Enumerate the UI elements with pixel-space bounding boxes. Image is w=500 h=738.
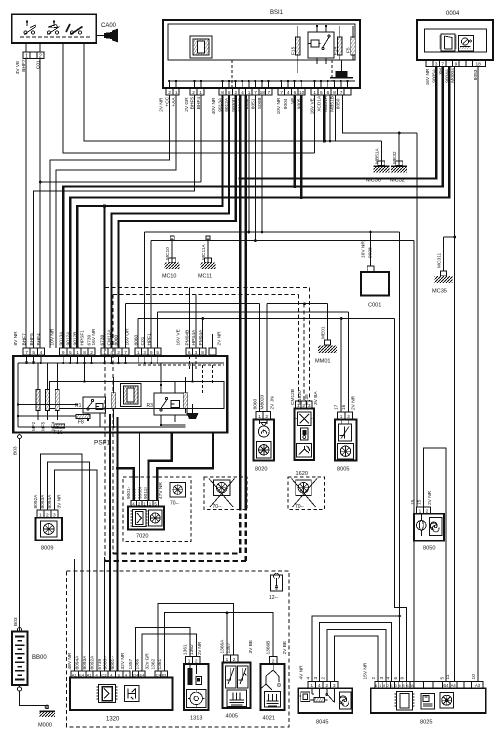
svg-text:8094A: 8094A — [47, 494, 53, 509]
wire BHF7 CA00 to PSF1 — [25, 43, 27, 348]
fuse MF2 — [36, 390, 40, 411]
BSI1 terminal wire labels — [0, 0, 1, 1]
svg-text:8: 8 — [83, 350, 86, 356]
svg-text:F15: F15 — [290, 46, 296, 55]
svg-text:MC35: MC35 — [432, 289, 447, 295]
svg-text:2: 2 — [192, 90, 195, 96]
svg-text:2V NR: 2V NR — [159, 97, 165, 112]
svg-text:MC11: MC11 — [198, 274, 212, 280]
7020 feed B from PSF1 — [149, 433, 172, 501]
svg-text:70--: 70-- — [170, 501, 179, 507]
svg-text:8053: 8053 — [473, 69, 479, 80]
PSF1 top internal bus — [18, 362, 224, 364]
wire 9012A BSI1 to PSF1 — [112, 95, 230, 348]
PSF1 terminal row group4 — [135, 348, 161, 356]
switch S2 inside CA00 — [48, 25, 60, 35]
svg-text:48V NR: 48V NR — [67, 652, 73, 669]
svg-text:1620: 1620 — [296, 471, 308, 477]
svg-text:16: 16 — [341, 404, 347, 410]
wire 9004 BSI1 tap — [293, 95, 295, 186]
fuse F8 — [76, 415, 90, 419]
wire B03 PSF1 to battery — [18, 435, 22, 439]
svg-text:XH: XH — [438, 68, 444, 75]
svg-text:1366B: 1366B — [266, 641, 272, 655]
fuse F16 — [55, 424, 65, 428]
svg-text:9004A: 9004A — [445, 68, 451, 83]
thick wires — [63, 67, 449, 671]
svg-text:F8: F8 — [78, 420, 84, 426]
svg-text:9012A: 9012A — [66, 331, 72, 346]
svg-text:8050: 8050 — [336, 98, 342, 109]
svg-text:9005: 9005 — [296, 98, 302, 109]
fuse MF5 — [46, 390, 50, 411]
BSI1 internal dashed links — [232, 60, 332, 88]
crossed-out fan option unit center — [204, 477, 247, 510]
PSF1 single-cell stub — [212, 334, 214, 348]
svg-text:2V BE: 2V BE — [282, 641, 288, 655]
svg-text:5: 5 — [156, 350, 159, 356]
crossed-out fan option unit right — [288, 477, 324, 510]
ground M000 — [20, 691, 56, 729]
svg-text:7020: 7020 — [136, 534, 148, 540]
svg-text:2: 2 — [117, 350, 120, 356]
BSI1 terminal stubs and bus dots — [169, 81, 347, 88]
svg-text:MC311: MC311 — [437, 253, 443, 268]
svg-text:3: 3 — [143, 350, 146, 356]
svg-text:6739: 6739 — [97, 658, 103, 669]
wire number labels — [13, 59, 480, 679]
wire 8053 to 8025 — [477, 67, 479, 681]
svg-text:MB51B: MB51B — [330, 96, 336, 112]
svg-text:8020: 8020 — [255, 467, 267, 473]
svg-text:6: 6 — [393, 677, 399, 680]
svg-text:7: 7 — [25, 350, 28, 356]
svg-text:0004: 0004 — [446, 11, 460, 17]
svg-text:8093A: 8093A — [40, 494, 46, 509]
PSF1 internal wires left — [17, 355, 100, 427]
heavy dashed border — [105, 505, 246, 561]
svg-text:8093A: 8093A — [82, 655, 88, 670]
PSF1 g5 risers — [189, 288, 202, 348]
ground MM01 — [315, 304, 337, 365]
svg-text:8: 8 — [333, 90, 336, 96]
svg-text:15V NR: 15V NR — [363, 662, 369, 679]
svg-text:9012B: 9012B — [73, 332, 79, 346]
svg-text:9013A: 9013A — [58, 331, 64, 346]
svg-text:32v GR: 32v GR — [145, 653, 151, 670]
wire MB51B stub — [335, 95, 337, 141]
wire C001 tap — [370, 232, 372, 266]
svg-text:S00B: S00B — [257, 97, 263, 109]
valve unit 1620 — [295, 401, 315, 477]
svg-text:9013A: 9013A — [218, 97, 224, 112]
svg-text:F14: F14 — [332, 46, 338, 55]
svg-text:40V NR: 40V NR — [211, 97, 217, 114]
fan option inside 7020 box — [170, 483, 186, 507]
svg-text:18: 18 — [476, 61, 482, 67]
sensor 4005 — [223, 655, 251, 720]
svg-text:B03: B03 — [13, 446, 19, 455]
svg-text:+AA: +AA — [171, 97, 177, 107]
svg-text:M8020: M8020 — [260, 395, 266, 410]
svg-text:BHF7: BHF7 — [22, 333, 28, 346]
svg-text:MF2: MF2 — [31, 421, 36, 431]
dashed system box B — [113, 295, 298, 554]
svg-text:2V NR: 2V NR — [351, 395, 357, 410]
wire CA00-3 to BSI1 16V VE — [63, 43, 315, 153]
wire 8045-1 arch to 8025 — [312, 616, 400, 682]
svg-text:B03: B03 — [13, 617, 19, 626]
svg-text:2: 2 — [320, 677, 326, 680]
svg-text:12--: 12-- — [269, 595, 278, 601]
PSF1 internal dashed links — [138, 356, 224, 393]
svg-text:15: 15 — [416, 499, 422, 505]
svg-text:8045: 8045 — [316, 720, 328, 726]
svg-text:6: 6 — [294, 90, 297, 96]
svg-text:F5: F5 — [346, 47, 352, 53]
wire XH 0004 to PSF1 — [63, 67, 443, 348]
7020 feed C from PSF1 — [157, 433, 213, 501]
relay R1 — [75, 397, 106, 420]
dashed system box A — [105, 288, 310, 561]
wire 1366 4005/4021 to 1320 — [164, 613, 273, 671]
wire 9013A BSI1 to PSF1 — [77, 95, 222, 348]
svg-text:6: 6 — [188, 350, 191, 356]
svg-text:16V VE: 16V VE — [176, 329, 182, 345]
BSI1 internal tap symbol — [330, 60, 353, 78]
svg-text:3V BA: 3V BA — [313, 391, 319, 405]
wire 9000I BSI1 down — [245, 95, 247, 505]
svg-text:B1: B1 — [162, 672, 168, 677]
PSF1 terminal row group3 — [101, 348, 129, 356]
svg-text:ME32: ME32 — [392, 151, 398, 164]
svg-text:BHF5: BHF5 — [29, 333, 35, 346]
ground MC35 — [432, 237, 455, 295]
svg-text:17: 17 — [334, 404, 340, 410]
relay R3 — [147, 382, 188, 426]
svg-text:PM04B: PM04B — [185, 330, 191, 346]
wire M8020 8020 to MM01 — [267, 304, 328, 412]
svg-text:4: 4 — [241, 90, 244, 96]
svg-text:9000--: 9000-- — [103, 655, 109, 669]
svg-text:E4: E4 — [79, 672, 85, 677]
svg-text:1362: 1362 — [189, 644, 195, 655]
svg-text:9: 9 — [150, 350, 153, 356]
svg-text:3V VE: 3V VE — [15, 61, 21, 75]
svg-text:9: 9 — [400, 677, 406, 680]
svg-text:2: 2 — [371, 677, 377, 680]
svg-text:4V NR: 4V NR — [298, 665, 304, 680]
svg-text:D4: D4 — [133, 672, 139, 677]
wire 8094A 8009 to 1320 — [55, 470, 97, 671]
svg-text:8060: 8060 — [114, 334, 120, 345]
svg-text:16V NR: 16V NR — [91, 328, 97, 345]
7020 feed A — [118, 468, 134, 500]
thick feeds PSF1 to 1320 — [109, 414, 111, 671]
svg-text:C4: C4 — [156, 672, 162, 677]
ground MC30 — [366, 141, 389, 184]
svg-text:3V NR: 3V NR — [57, 494, 63, 509]
svg-text:3: 3 — [195, 350, 198, 356]
control unit 7020 — [123, 477, 191, 542]
connector icon inside BSI1 — [190, 36, 212, 58]
svg-text:ME01: ME01 — [321, 326, 327, 339]
svg-text:8094A: 8094A — [75, 655, 81, 670]
svg-text:9000I: 9000I — [137, 487, 143, 499]
BSI1 bottom terminal row — [166, 88, 351, 96]
relay box 8045 — [298, 682, 352, 726]
svg-text:A1: A1 — [87, 672, 93, 677]
svg-text:6: 6 — [228, 90, 231, 96]
wire M0004 to 8025 — [454, 67, 456, 681]
svg-text:BHF4: BHF4 — [196, 97, 202, 110]
battery BB00 — [12, 628, 47, 691]
PSF1 terminal labels — [0, 0, 1, 1]
svg-text:BHF4: BHF4 — [36, 333, 42, 346]
svg-text:7: 7 — [254, 90, 257, 96]
svg-text:MF4: MF4 — [51, 421, 56, 431]
wire 8045-2 arch to 8025 — [327, 630, 386, 682]
svg-text:1361: 1361 — [182, 644, 188, 655]
0004 wire labels — [0, 0, 1, 1]
svg-text:R1: R1 — [75, 403, 82, 409]
wire 9005A 0004 left run — [240, 67, 436, 179]
svg-text:HPS4A: HPS4A — [191, 329, 197, 346]
wire 1357 4005 to 1320 — [158, 604, 233, 672]
wire BHF5 BSI1 to PSF1 — [34, 95, 195, 348]
wire 8005 feed 2 from PSF1 — [158, 312, 349, 412]
svg-text:B4: B4 — [443, 683, 449, 688]
PSF1 terminal row group1 — [23, 348, 45, 356]
svg-text:BHF7: BHF7 — [21, 59, 27, 72]
svg-text:16V VE: 16V VE — [309, 98, 315, 114]
svg-text:5: 5 — [32, 350, 35, 356]
svg-text:8092A: 8092A — [89, 655, 95, 670]
svg-text:MC30: MC30 — [366, 178, 381, 184]
switch S3 inside CA00 — [66, 24, 83, 35]
wire 8050 BSI1 to MC32 junction and 8050 unit — [342, 95, 417, 507]
svg-text:1: 1 — [76, 350, 79, 356]
0004 terminal row — [426, 60, 485, 67]
svg-text:11: 11 — [445, 674, 451, 679]
svg-text:5: 5 — [439, 677, 445, 680]
wire S00B BSI1 tap — [261, 95, 263, 232]
svg-text:1: 1 — [137, 350, 140, 356]
svg-text:8050: 8050 — [423, 546, 435, 552]
svg-text:2: 2 — [90, 350, 93, 356]
dashed option wires to 1620 — [298, 288, 309, 401]
svg-text:32V NR: 32V NR — [120, 652, 126, 669]
svg-text:9: 9 — [455, 61, 458, 67]
wire 9001D BSI1 down — [239, 95, 241, 505]
svg-text:M1620: M1620 — [297, 390, 303, 405]
svg-text:1366: 1366 — [134, 658, 140, 669]
svg-text:3V BE: 3V BE — [248, 640, 254, 654]
wire 6739 to 1320 — [103, 557, 105, 671]
ground MC11 — [198, 236, 216, 280]
thermo switch 8005 — [335, 412, 357, 473]
svg-text:MC10: MC10 — [162, 274, 176, 280]
svg-text:16V OR: 16V OR — [125, 328, 131, 346]
svg-text:MC11A: MC11A — [201, 244, 207, 260]
fan unit 8009 — [36, 510, 63, 551]
wire +CC BSI1 to PSF1 — [50, 95, 169, 348]
svg-text:7: 7 — [280, 90, 283, 96]
wire 8092A 8009 to 1320 — [41, 454, 83, 671]
svg-text:2V NR: 2V NR — [427, 490, 433, 505]
svg-text:MC32: MC32 — [390, 178, 405, 184]
control unit 8025 — [371, 682, 486, 726]
wire 8005 feed 1 — [340, 319, 342, 413]
ground MC10 — [162, 236, 180, 280]
svg-text:9011I: 9011I — [143, 487, 149, 499]
svg-text:A4: A4 — [451, 683, 457, 688]
svg-text:2V GR: 2V GR — [184, 97, 190, 112]
svg-text:MB51A: MB51A — [374, 147, 380, 164]
fuse near R1 — [111, 393, 116, 409]
svg-text:8V NR: 8V NR — [13, 331, 19, 346]
svg-text:16V NR: 16V NR — [425, 68, 431, 85]
PSF1 small ground symbol — [187, 404, 199, 419]
PSF1 terminal row group5 — [186, 348, 206, 356]
svg-text:HPF1: HPF1 — [146, 333, 152, 346]
svg-text:8009: 8009 — [41, 546, 53, 552]
svg-text:C3: C3 — [101, 672, 107, 677]
svg-text:5: 5 — [69, 350, 72, 356]
svg-text:8060: 8060 — [252, 398, 258, 409]
wire 1361 1313 to 1320 — [136, 627, 190, 671]
svg-text:4: 4 — [110, 350, 113, 356]
svg-text:8: 8 — [221, 90, 224, 96]
svg-text:2V NR: 2V NR — [217, 331, 223, 346]
svg-text:M000: M000 — [38, 723, 52, 729]
svg-text:8060: 8060 — [133, 334, 139, 345]
svg-text:15: 15 — [410, 499, 416, 505]
svg-text:8051: 8051 — [251, 98, 257, 109]
thick junction dots — [103, 177, 303, 470]
motor 8020 — [254, 412, 275, 473]
svg-text:C01: C01 — [35, 60, 41, 69]
wire 8052 BSI1 to 8025 — [145, 95, 400, 681]
svg-text:+CC: +CC — [165, 96, 171, 106]
ground MC32 — [390, 133, 407, 184]
wire 1362 1313 to 1320 — [142, 634, 197, 671]
svg-text:9001--: 9001-- — [110, 655, 116, 669]
BSI1 box — [163, 10, 360, 88]
svg-text:8025: 8025 — [420, 720, 432, 726]
svg-text:1357: 1357 — [128, 658, 134, 669]
svg-text:8092A: 8092A — [33, 494, 39, 509]
svg-text:1: 1 — [175, 90, 178, 96]
display icon inside 0004 — [439, 34, 456, 51]
7020 feed D thin — [138, 433, 140, 501]
fuse labels — [31, 46, 351, 431]
svg-text:MF5: MF5 — [41, 421, 46, 431]
wire 8051 BSI1 to 8025 — [151, 95, 414, 681]
svg-text:MB51A: MB51A — [323, 95, 329, 112]
wire 8045-4 arch to 8025 — [319, 623, 391, 682]
svg-text:9000D: 9000D — [231, 97, 237, 112]
svg-text:1: 1 — [103, 350, 106, 356]
svg-text:CM12B: CM12B — [290, 389, 296, 405]
wire 8060 PSF1 to 8020 — [126, 304, 260, 412]
svg-text:MC10: MC10 — [165, 247, 171, 260]
svg-text:1: 1 — [248, 90, 251, 96]
svg-text:1361: 1361 — [157, 658, 163, 669]
fuse MF4 — [55, 390, 59, 411]
svg-text:10V NR: 10V NR — [50, 328, 56, 345]
wire 8050-2 loop to 8025 — [424, 448, 447, 681]
svg-text:2v NR: 2v NR — [197, 641, 203, 655]
svg-text:18: 18 — [260, 90, 266, 96]
svg-text:HPSF1: HPSF1 — [80, 330, 86, 346]
svg-text:4: 4 — [305, 677, 311, 680]
svg-text:1357: 1357 — [226, 642, 232, 653]
svg-text:4: 4 — [386, 677, 392, 680]
svg-text:6: 6 — [327, 90, 330, 96]
svg-text:C01: C01 — [140, 336, 146, 345]
svg-text:9001D: 9001D — [237, 97, 243, 112]
svg-text:4: 4 — [287, 90, 290, 96]
svg-text:9: 9 — [62, 350, 65, 356]
svg-text:2: 2 — [235, 90, 238, 96]
svg-text:BSI1: BSI1 — [270, 10, 284, 16]
svg-text:4021: 4021 — [263, 716, 275, 722]
svg-text:10: 10 — [299, 90, 305, 96]
sensor 4021 — [261, 657, 285, 722]
control unit 1320 — [70, 671, 173, 723]
svg-text:9000-: 9000- — [132, 486, 138, 499]
svg-text:7: 7 — [124, 350, 127, 356]
svg-text:70--: 70-- — [213, 504, 222, 510]
svg-text:9008: 9008 — [368, 247, 374, 258]
svg-text:CA00: CA00 — [101, 23, 117, 29]
svg-text:10V NR: 10V NR — [276, 97, 282, 114]
svg-text:1: 1 — [199, 90, 202, 96]
sensor option 12 — [269, 573, 283, 601]
svg-text:XCD1A: XCD1A — [316, 95, 322, 112]
wire 8045-3 arch to 8025 — [334, 636, 378, 682]
wire 9005 BSI1 tap — [300, 95, 302, 197]
svg-text:1313: 1313 — [190, 716, 202, 722]
svg-text:8052: 8052 — [244, 98, 250, 109]
svg-text:3: 3 — [379, 677, 385, 680]
svg-text:10: 10 — [471, 674, 477, 680]
wire XCD1A thick stub — [323, 95, 325, 141]
svg-text:6739: 6739 — [304, 394, 310, 405]
combination instrument 0004 — [417, 11, 493, 60]
svg-text:9004: 9004 — [283, 98, 289, 109]
wire 48V to 1320 — [74, 559, 76, 671]
svg-text:A3: A3 — [475, 683, 481, 688]
gauge icon inside 0004 — [459, 36, 474, 52]
svg-text:E4: E4 — [140, 672, 146, 677]
pump 1313 — [184, 657, 209, 722]
wire 8093A 8009 to 1320 — [48, 462, 90, 671]
wire PSF1 to 8025 via jog — [138, 319, 406, 682]
PSF1 inner bus box — [50, 382, 224, 409]
dashed bottom system box C — [67, 571, 289, 727]
svg-text:5: 5 — [320, 90, 323, 96]
svg-text:2: 2 — [168, 90, 171, 96]
svg-text:9005A: 9005A — [431, 68, 437, 83]
svg-text:BHF5: BHF5 — [190, 97, 196, 110]
svg-text:7: 7 — [340, 90, 343, 96]
svg-text:7: 7 — [268, 90, 271, 96]
svg-text:BB00: BB00 — [32, 655, 47, 661]
svg-text:MM01: MM01 — [315, 359, 331, 365]
wire 9004A 0004 to PSF1 — [70, 67, 449, 348]
